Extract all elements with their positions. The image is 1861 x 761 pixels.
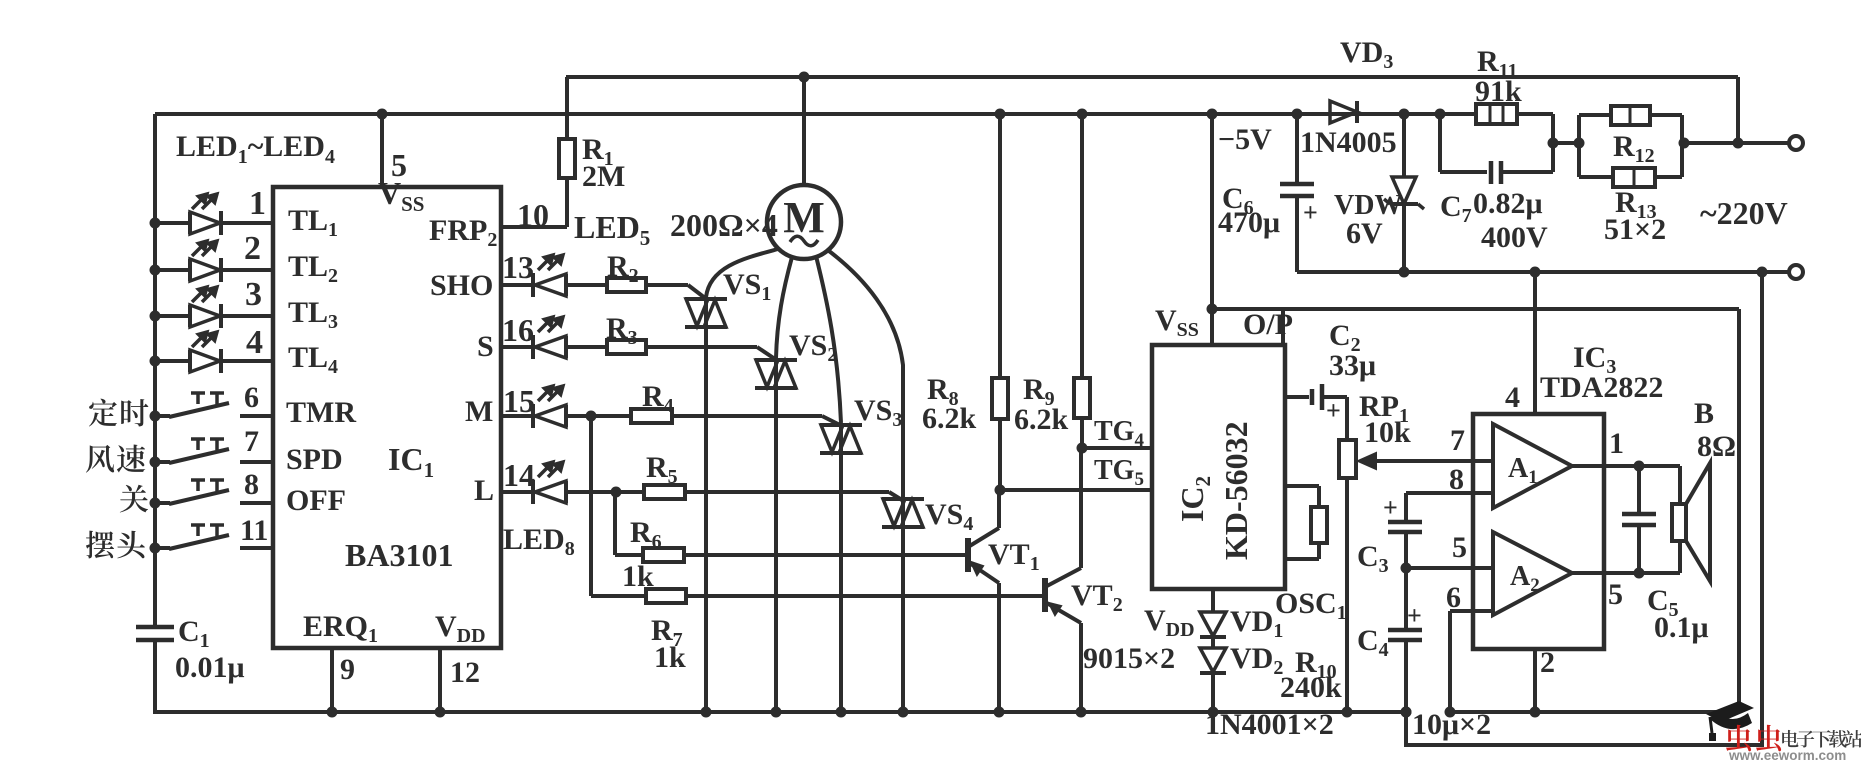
node VDW bottom — [1399, 267, 1410, 278]
wire pin 5 in — [1406, 566, 1493, 570]
node Vss return — [1207, 304, 1218, 315]
node rect rail pin4 — [1530, 267, 1541, 278]
wire right vertical — [1737, 309, 1741, 712]
IC U2 KD-56032 box — [1152, 345, 1285, 589]
svg-text:240k: 240k — [1280, 671, 1342, 704]
svg-text:+: + — [1383, 493, 1398, 522]
svg-text:www.eeworm.com: www.eeworm.com — [1728, 748, 1846, 761]
svg-text:SHO: SHO — [430, 269, 493, 302]
svg-text:LED5: LED5 — [574, 209, 650, 250]
wire R2 to VS1 gate — [646, 283, 688, 287]
node VS3 bus — [836, 707, 847, 718]
svg-text:B: B — [1694, 397, 1714, 430]
label KD-56032 — [1218, 421, 1254, 560]
wire bottom bus left — [153, 710, 1406, 714]
node M row branch — [586, 411, 597, 422]
LED4 — [188, 350, 192, 372]
svg-text:FRP2: FRP2 — [429, 214, 497, 251]
transistor VT1 — [965, 538, 971, 572]
wire pin 12 — [438, 648, 442, 712]
svg-text:7: 7 — [244, 425, 259, 458]
motor M — [767, 185, 841, 259]
wire VS3 cathode — [839, 423, 843, 712]
svg-text:4: 4 — [1505, 381, 1520, 414]
svg-text:−5V: −5V — [1218, 123, 1272, 156]
node VT2 bus — [1076, 707, 1087, 718]
node C5 bottom — [1634, 568, 1645, 579]
svg-text:10k: 10k — [1364, 416, 1411, 449]
svg-text:13: 13 — [502, 249, 534, 285]
svg-text:1: 1 — [249, 185, 266, 222]
wire motor lead 4 — [829, 251, 903, 497]
node C3 C4 — [1401, 563, 1412, 574]
wire pin 6 — [1450, 609, 1493, 613]
svg-text:1N4001×2: 1N4001×2 — [1205, 708, 1334, 741]
node R11 C7 join — [1548, 138, 1559, 149]
label IC2 — [1174, 476, 1215, 522]
svg-text:14: 14 — [503, 457, 535, 493]
svg-text:51×2: 51×2 — [1604, 213, 1666, 246]
svg-text:400V: 400V — [1481, 221, 1548, 254]
resistor R3 — [607, 340, 646, 354]
watermark 电子下载站 — [1782, 730, 1798, 747]
svg-text:LED1~LED4: LED1~LED4 — [176, 130, 335, 168]
node R11 C7 split — [1435, 109, 1446, 120]
diode VD3 1N4005 — [1330, 101, 1357, 123]
svg-text:9015×2: 9015×2 — [1083, 642, 1175, 675]
resistor R9 — [1080, 114, 1084, 378]
svg-text:91k: 91k — [1475, 75, 1522, 108]
svg-text:TMR: TMR — [286, 396, 356, 429]
node VD2 bus — [1208, 707, 1219, 718]
svg-text:+: + — [1326, 396, 1341, 425]
diode VD2 — [1211, 637, 1215, 648]
wire R3 to VS2 gate — [646, 345, 757, 349]
switch pin 6 — [155, 414, 170, 418]
wire S row — [501, 345, 533, 349]
wire L to R6 — [613, 492, 617, 555]
svg-text:~220V: ~220V — [1700, 195, 1788, 231]
node VS2 bus — [771, 707, 782, 718]
LED6 — [531, 335, 535, 359]
zener VDW — [1402, 114, 1406, 177]
node R12 R13 right — [1679, 138, 1690, 149]
svg-text:4: 4 — [246, 324, 263, 361]
wire rectified rail — [1297, 270, 1790, 274]
wire to R12 R13 — [1553, 141, 1579, 145]
triac VS3 — [820, 423, 862, 427]
node switch 6 rail — [150, 411, 161, 422]
wire top bus right drop — [1736, 77, 1740, 143]
IC U1 BA3101 box — [273, 187, 501, 648]
wire bottom bus right — [1449, 710, 1739, 714]
IC U3 TDA2822 box — [1473, 414, 1604, 649]
svg-text:TDA2822: TDA2822 — [1540, 371, 1663, 404]
wire O/P pin — [1281, 309, 1285, 345]
svg-text:5: 5 — [1608, 578, 1623, 611]
label 风速 — [86, 445, 114, 473]
wire VS4 cathode — [901, 497, 905, 712]
resistor R1 — [565, 77, 569, 139]
svg-text:KD-56032: KD-56032 — [1218, 421, 1254, 560]
svg-text:+: + — [1303, 198, 1318, 227]
svg-text:8: 8 — [244, 468, 259, 501]
node TL4 rail — [150, 356, 161, 367]
svg-text:3: 3 — [245, 276, 262, 313]
svg-text:0.01μ: 0.01μ — [175, 651, 245, 684]
wire M row — [501, 414, 533, 418]
wire TL3 row — [155, 314, 190, 318]
svg-text:6.2k: 6.2k — [922, 402, 977, 435]
node R9 top — [1077, 109, 1088, 120]
wire TG5 — [1000, 488, 1152, 492]
svg-text:12: 12 — [450, 656, 480, 689]
wire VT1 collector — [997, 490, 1001, 528]
node pin6 bus — [1445, 707, 1456, 718]
wire VT1 emitter — [997, 583, 1001, 712]
node switch 7 rail — [150, 457, 161, 468]
svg-text:8Ω: 8Ω — [1697, 430, 1736, 463]
node R8 TG5 — [995, 485, 1006, 496]
wire motor feed — [802, 77, 806, 185]
label 关 — [120, 485, 148, 513]
resistor R10 osc — [1285, 484, 1319, 488]
svg-text:8: 8 — [1449, 463, 1464, 496]
LED3 — [188, 305, 192, 327]
svg-text:O/P: O/P — [1243, 308, 1293, 341]
svg-text:1N4005: 1N4005 — [1300, 126, 1397, 159]
wire to 220V terminal 1 — [1682, 141, 1790, 145]
wire motor lead 2 — [776, 257, 792, 358]
svg-text:200Ω×4: 200Ω×4 — [670, 207, 778, 243]
svg-text:SPD: SPD — [286, 443, 343, 476]
switch pin 8 — [155, 501, 170, 505]
node terminal ~220V upper — [1789, 136, 1803, 150]
capacitor C3 — [1404, 493, 1408, 522]
wire left rail lower — [153, 640, 157, 712]
svg-text:M: M — [465, 395, 493, 428]
svg-text:33μ: 33μ — [1329, 349, 1376, 382]
svg-text:LED8: LED8 — [503, 523, 575, 560]
wire R7 to VT2 base — [686, 594, 1045, 598]
svg-text:OSC1: OSC1 — [1275, 587, 1347, 624]
svg-text:1k: 1k — [654, 641, 686, 674]
wire Vss drop — [1210, 114, 1214, 345]
wire VT2 emitter — [1079, 623, 1083, 712]
node R9 TG4 — [1077, 443, 1088, 454]
capacitor C5 — [1637, 466, 1641, 514]
wire RP1 wiper to pin7 — [1372, 459, 1493, 463]
node motor top — [799, 72, 810, 83]
wire pin 5 — [380, 114, 384, 187]
wire TL2 row — [155, 268, 190, 272]
node Vss bus — [1207, 109, 1218, 120]
diode VD1 — [1211, 589, 1215, 612]
svg-text:S: S — [477, 330, 494, 363]
wire VS2 cathode — [774, 358, 778, 712]
capacitor C2 — [1285, 395, 1309, 399]
watermark cap icon — [1706, 701, 1754, 722]
wire L row — [501, 490, 533, 494]
node L row branch — [611, 487, 622, 498]
wire R5 to VS4 gate — [685, 490, 889, 494]
wire SHO row — [501, 283, 533, 287]
svg-text:11: 11 — [240, 514, 268, 547]
svg-text:6.2k: 6.2k — [1014, 403, 1069, 436]
wire motor lead 3 — [816, 256, 841, 423]
svg-text:7: 7 — [1450, 424, 1465, 457]
svg-text:L: L — [474, 474, 494, 507]
svg-text:0.82μ: 0.82μ — [1473, 187, 1543, 220]
label 定时 — [89, 399, 117, 427]
wire pin 9 — [330, 648, 334, 712]
node C4 bus — [1401, 707, 1412, 718]
node switch 11 rail — [150, 543, 161, 554]
node pin 12 — [435, 707, 446, 718]
node switch 8 rail — [150, 498, 161, 509]
triac VS2 — [755, 358, 797, 362]
LED1 — [188, 212, 192, 234]
svg-text:15: 15 — [503, 383, 535, 419]
node terminal ~220V lower — [1789, 265, 1803, 279]
node R8 top — [995, 109, 1006, 120]
node VT1 bus — [994, 707, 1005, 718]
svg-text:+: + — [1407, 601, 1422, 630]
LED5 — [531, 273, 535, 297]
wire motor lead 1 — [706, 249, 778, 297]
node rect rail right — [1757, 267, 1768, 278]
capacitor C4 — [1404, 568, 1408, 630]
wire A1 out — [1572, 464, 1680, 468]
switch pin 11 — [155, 546, 170, 550]
wire TL4 row — [155, 359, 190, 363]
capacitor C1 — [136, 625, 174, 630]
svg-text:6V: 6V — [1346, 217, 1383, 250]
svg-text:BA3101: BA3101 — [345, 537, 453, 573]
node TL2 rail — [150, 265, 161, 276]
watermark 虫虫 — [1726, 725, 1751, 752]
switch pin 7 — [155, 460, 170, 464]
resistor R6 — [643, 548, 684, 562]
svg-text:2M: 2M — [582, 160, 625, 193]
wire TG4 — [1082, 446, 1152, 450]
resistor R2 — [607, 278, 646, 292]
wire left rail — [153, 114, 157, 627]
LED2 — [188, 259, 192, 281]
resistor R13 — [1579, 175, 1613, 179]
node pin 9 — [327, 707, 338, 718]
node pin5 bus — [377, 109, 388, 120]
opamp A1 — [1493, 424, 1572, 508]
resistor R5 — [644, 485, 685, 499]
svg-text:16: 16 — [502, 312, 534, 348]
node R12 R13 left — [1574, 138, 1585, 149]
svg-text:ERQ1: ERQ1 — [303, 610, 378, 647]
wire VT2 collector — [1079, 448, 1083, 568]
transistor VT2 — [1042, 578, 1048, 612]
node VDW top — [1399, 109, 1410, 120]
svg-text:2: 2 — [244, 230, 261, 267]
svg-text:6: 6 — [1446, 581, 1461, 614]
node bottom 1406 lower — [1401, 707, 1412, 718]
node TL1 rail — [150, 218, 161, 229]
svg-text:OFF: OFF — [286, 484, 346, 517]
wire -5V bus — [155, 112, 1440, 116]
resistor R7 — [646, 589, 686, 603]
wire Vss return — [1212, 307, 1739, 311]
wire TL1 row — [155, 221, 190, 225]
node VS4 bus — [898, 707, 909, 718]
wire A2 out — [1572, 571, 1680, 575]
resistor R4 — [631, 409, 672, 423]
resistor R8 — [998, 114, 1002, 378]
wire M to R7 — [589, 416, 593, 596]
speaker B — [1678, 466, 1682, 504]
opamp A2 — [1493, 532, 1572, 615]
svg-text:1: 1 — [1609, 427, 1624, 460]
svg-text:9: 9 — [340, 653, 355, 686]
svg-text:6: 6 — [244, 381, 259, 414]
svg-text:M: M — [783, 193, 825, 242]
resistor R11 — [1440, 112, 1476, 116]
node C5 top — [1634, 461, 1645, 472]
wire top bus — [566, 75, 1738, 79]
resistor R12 — [1577, 115, 1581, 177]
wire lower return — [1406, 272, 1762, 745]
wire R6 to VT1 base — [684, 553, 968, 557]
svg-text:470μ: 470μ — [1218, 206, 1280, 239]
capacitor C6 — [1295, 114, 1299, 184]
node VS1 bus — [701, 707, 712, 718]
node RP1 bus — [1342, 707, 1353, 718]
LED8 — [531, 480, 535, 504]
wire R4 to VS3 gate — [672, 414, 822, 418]
svg-text:5: 5 — [1452, 531, 1467, 564]
svg-text:0.1μ: 0.1μ — [1654, 611, 1709, 644]
node C6 bus — [1292, 109, 1303, 120]
wire VS1 cathode — [704, 297, 708, 712]
potentiometer RP1 — [1345, 397, 1349, 440]
wire pin 8 — [1406, 491, 1493, 495]
capacitor C7 — [1438, 114, 1442, 172]
svg-text:2: 2 — [1540, 646, 1555, 679]
wire pin 2 — [1533, 649, 1537, 712]
node pin2 bus — [1530, 707, 1541, 718]
triac VS1 — [685, 297, 727, 301]
node terminal junction — [1733, 138, 1744, 149]
node TL3 rail — [150, 311, 161, 322]
LED7 — [531, 404, 535, 428]
triac VS4 — [882, 497, 924, 501]
wire pin 4 — [1533, 272, 1537, 414]
label 摆头 — [86, 531, 114, 559]
